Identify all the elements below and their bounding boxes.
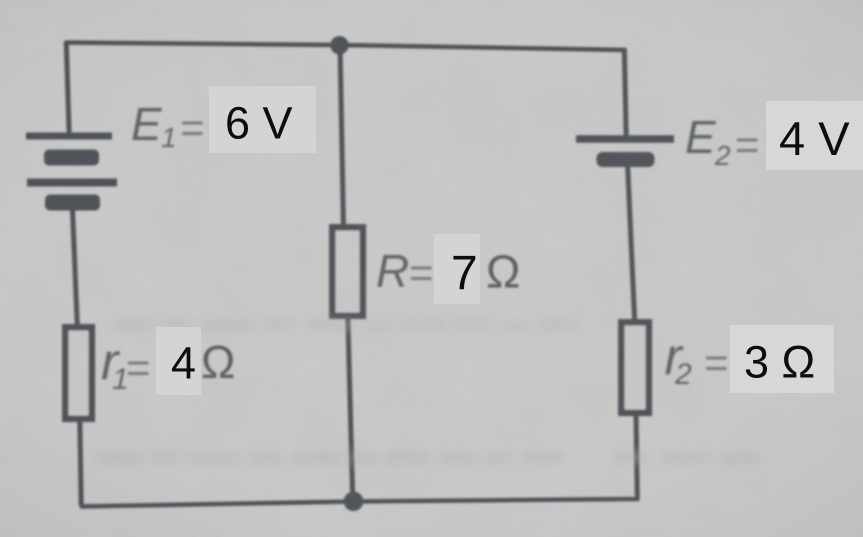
value box for 4 <box>156 327 201 395</box>
faint show-through smudge upper band <box>113 319 578 332</box>
wire right branch middle (E2 to r2) <box>628 165 635 324</box>
resistor r2 body <box>621 322 649 413</box>
label R= <box>376 245 434 297</box>
value 7 <box>451 247 478 300</box>
battery E2 (single cell) <box>576 139 674 167</box>
svg-text:6 V: 6 V <box>225 98 293 149</box>
label E1= <box>131 98 205 153</box>
wire left branch upper (top rail to E1) <box>66 41 69 135</box>
wire middle branch upper (node A to R) <box>340 44 344 227</box>
svg-text:7: 7 <box>451 247 478 300</box>
svg-text:4 V: 4 V <box>779 112 850 165</box>
E1 cell2 short thick plate <box>45 195 100 211</box>
value box for 4 V <box>766 101 863 170</box>
label r2 = <box>665 328 729 391</box>
wire bottom rail right segment <box>353 499 639 502</box>
wire left branch lower (r1 to bottom rail) <box>80 418 81 506</box>
node B: bottom junction dot <box>344 492 364 512</box>
E2 short thick plate <box>597 152 655 167</box>
value box for 7 <box>434 234 480 304</box>
resistor r1 body <box>65 327 92 419</box>
resistor R body <box>332 227 363 315</box>
faint show-through smudge lower band <box>97 451 760 464</box>
wire right branch upper (top rail to E2) <box>624 48 626 137</box>
wire middle branch lower (R to node B) <box>348 316 353 502</box>
wire top rail right segment <box>339 45 626 50</box>
value 3 Ω <box>744 337 815 388</box>
wire bottom rail left segment <box>80 502 353 507</box>
label E2= <box>685 111 760 171</box>
value box for 6 V <box>209 86 316 153</box>
node A: top junction dot <box>330 36 348 54</box>
E2 long plate <box>576 135 674 143</box>
value 4 <box>171 338 196 389</box>
svg-text:3 Ω: 3 Ω <box>744 337 815 388</box>
battery E1 (two cells) <box>26 136 117 211</box>
value 4 V <box>779 112 850 165</box>
E1 cell1 long plate <box>26 133 112 140</box>
E1 cell2 long plate <box>27 179 117 187</box>
wire right branch lower (r2 to bottom rail) <box>636 412 637 500</box>
svg-text:4: 4 <box>171 338 196 389</box>
wire top rail left segment <box>66 43 340 46</box>
wire left branch middle (E1 to r1) <box>73 209 78 326</box>
label r1= <box>101 333 151 396</box>
E1 cell1 short thick plate <box>44 150 99 166</box>
value 6 V <box>225 98 293 149</box>
value box for 3 Ω <box>730 325 834 393</box>
